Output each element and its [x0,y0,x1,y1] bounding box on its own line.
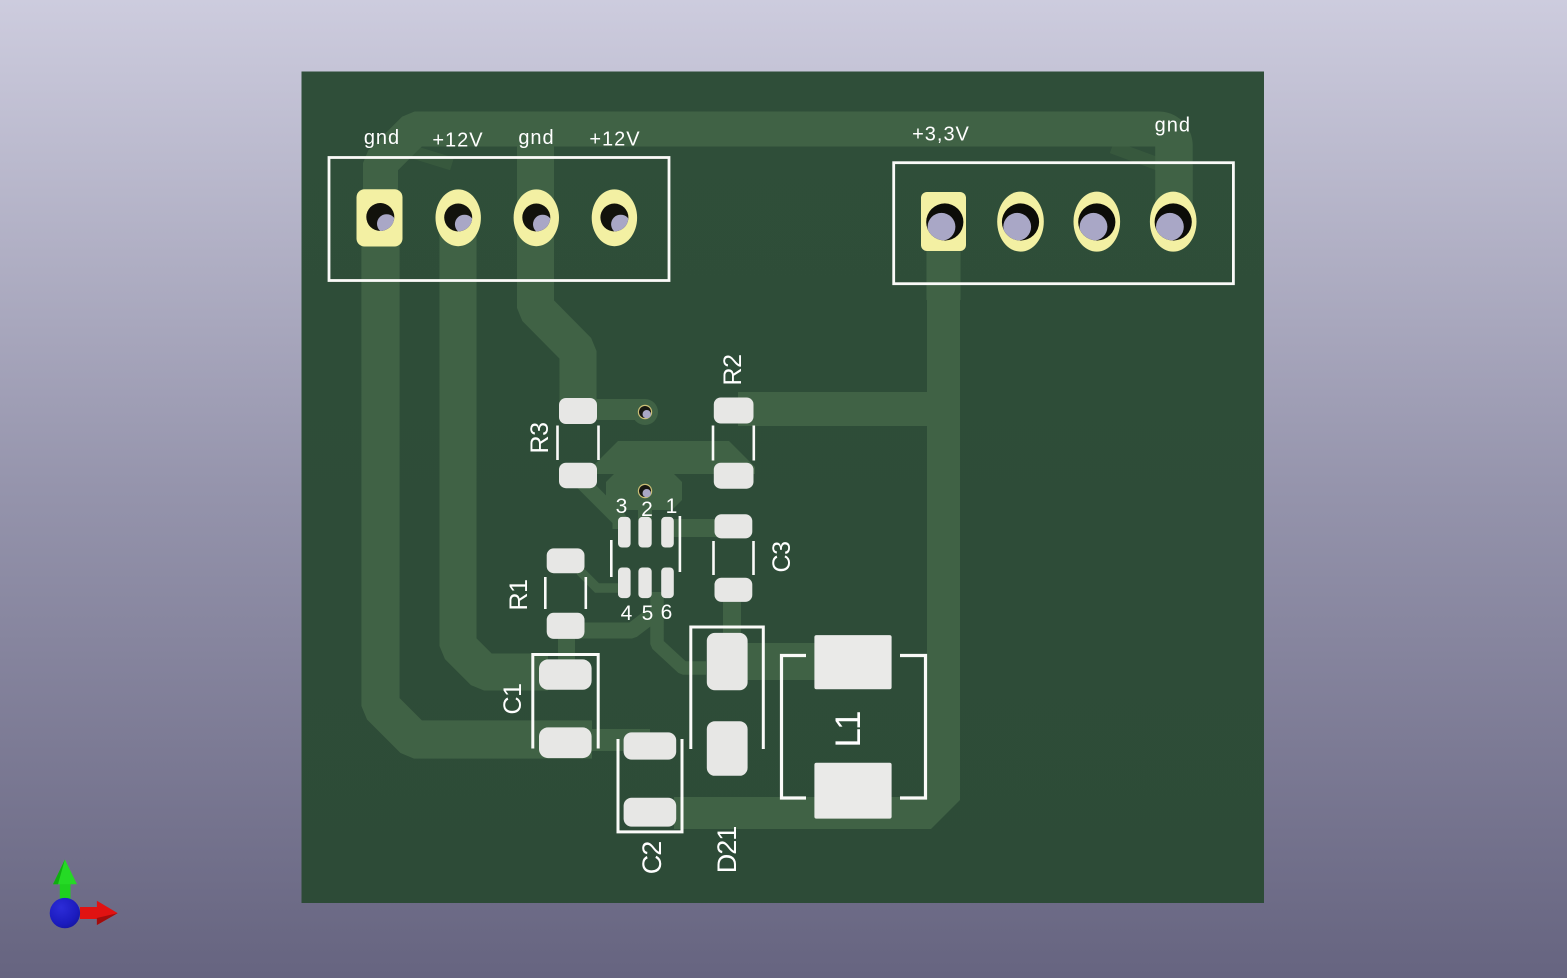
svg-text:C3: C3 [768,542,796,573]
svg-text:gnd: gnd [364,127,400,149]
svg-text:R1: R1 [505,580,533,611]
svg-text:+12V: +12V [589,129,640,151]
svg-text:R2: R2 [719,355,747,386]
svg-text:6: 6 [661,601,673,624]
svg-text:C2: C2 [637,842,667,875]
svg-text:4: 4 [621,602,633,625]
svg-text:L1: L1 [829,712,868,747]
svg-text:3: 3 [616,495,628,518]
svg-text:+3,3V: +3,3V [912,124,970,146]
svg-text:D21: D21 [712,827,742,874]
svg-text:gnd: gnd [1155,115,1191,137]
svg-text:5: 5 [642,602,654,625]
svg-text:1: 1 [666,495,678,518]
svg-text:C1: C1 [499,684,527,715]
svg-text:+12V: +12V [432,130,483,152]
svg-text:R3: R3 [526,423,554,454]
svg-text:gnd: gnd [518,127,554,149]
svg-text:2: 2 [641,498,653,521]
